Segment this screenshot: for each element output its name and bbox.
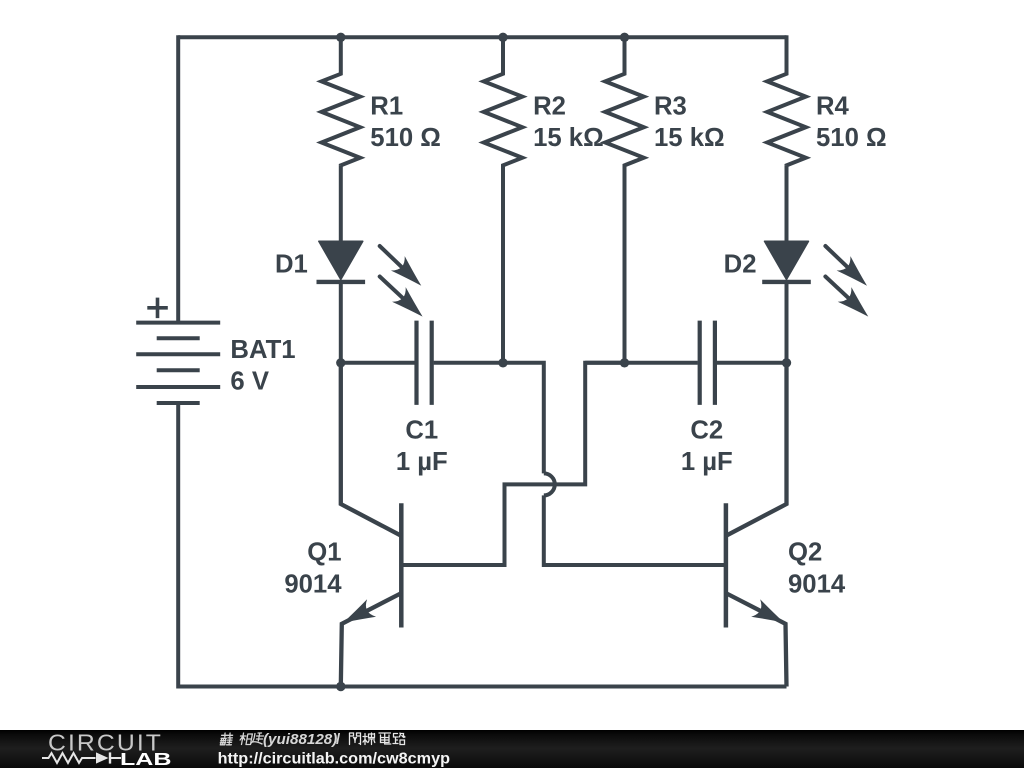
wire: left rail from top rail down to battery positive	[176, 35, 180, 322]
svg-text:C1: C1	[405, 417, 438, 445]
svg-text:9014: 9014	[788, 570, 846, 598]
transistor Q2 collector lead	[726, 363, 787, 536]
svg-text:R3: R3	[654, 92, 687, 120]
wire: left rail from battery negative down to bottom rail	[176, 403, 180, 689]
node junction dot: node A at R2 / C1	[498, 358, 507, 367]
footer title CJK glyph 爍 (drawn)	[363, 733, 375, 745]
battery BAT1 long positive plate 3	[136, 352, 220, 356]
node junction dot: top rail / R2	[498, 33, 507, 42]
svg-text:510 Ω: 510 Ω	[370, 124, 441, 152]
svg-text:LAB: LAB	[120, 748, 172, 768]
battery BAT1 short negative plate 6	[157, 401, 200, 405]
svg-text:C2: C2	[690, 417, 723, 445]
svg-text:D2: D2	[724, 251, 757, 279]
node junction dot: node A at D1 cathode / C1	[336, 358, 345, 367]
CircuitLab footer brand bar	[0, 730, 1024, 768]
LED D2 anode wire from resistor	[785, 165, 789, 243]
LED D1 triangle	[319, 241, 363, 279]
wire: node B horizontal from R3 bottom to C2 left plate	[585, 361, 698, 365]
transistor Q2 emitter lead with arrow	[726, 593, 787, 686]
LED D2 cathode bar	[762, 280, 811, 284]
resistor R1 510 ohm	[322, 37, 441, 165]
transistor Q1 emitter lead with arrow	[341, 593, 402, 686]
wire: node A horizontal from C1 right plate to R2 bottom	[434, 361, 503, 365]
transistor Q1 base bar	[399, 503, 404, 627]
wire: top supply rail	[178, 35, 786, 39]
svg-text:http://circuitlab.com/cw8cmyp: http://circuitlab.com/cw8cmyp	[218, 750, 450, 767]
svg-text:BAT1: BAT1	[230, 336, 295, 364]
LED D2 light emission arrow 1	[825, 246, 848, 268]
svg-text:15 kΩ: 15 kΩ	[533, 124, 604, 152]
svg-text:9014: 9014	[284, 570, 342, 598]
LED D1 cathode wire down to node	[339, 282, 343, 363]
svg-text:/: /	[336, 731, 341, 748]
logo resistor zigzag glyph	[42, 753, 96, 763]
LED D1 anode wire from resistor	[339, 165, 343, 243]
battery BAT1 plus sign	[147, 298, 168, 319]
node junction dot: node B at R3 / C2	[620, 358, 629, 367]
LED D1 cathode bar	[317, 280, 366, 284]
battery BAT1 long positive plate 5	[136, 385, 220, 389]
svg-text:R1: R1	[370, 92, 403, 120]
wire: cross-coupling from node A toward Q2 base (horizontal top)	[503, 363, 544, 474]
wire: node B horizontal from C2 right plate to D2 cathode	[717, 361, 787, 365]
svg-text:15 kΩ: 15 kΩ	[654, 124, 725, 152]
svg-text:R4: R4	[816, 92, 850, 120]
capacitor C1 left plate	[414, 321, 418, 405]
LED D2 cathode wire down to node	[785, 282, 789, 363]
LED D2 triangle	[765, 241, 809, 279]
wire: right rail top corner down to R4	[785, 35, 789, 74]
capacitor C2 1uF	[681, 321, 733, 477]
svg-text:R2: R2	[533, 92, 566, 120]
footer author name CJK glyph 柏 (drawn)	[239, 733, 253, 745]
LED D1	[275, 165, 429, 362]
battery BAT1	[136, 298, 295, 403]
LED D2 light emission arrow 2	[825, 277, 849, 299]
battery BAT1 short negative plate 2	[157, 336, 200, 340]
logo diode glyph	[96, 752, 109, 763]
footer title CJK glyph 路 (drawn)	[393, 733, 405, 745]
battery BAT1 long positive plate 1	[136, 321, 220, 325]
svg-text:6 V: 6 V	[230, 368, 269, 396]
node junction dot: top rail / R1	[336, 33, 345, 42]
resistor R2 15 kohm with wire down to node A	[484, 37, 604, 363]
LED D2	[724, 165, 875, 362]
resistor R3 15 kohm with wire down to node B	[605, 37, 724, 363]
svg-text:D1: D1	[275, 251, 308, 279]
footer title CJK glyph 電 (drawn)	[379, 733, 391, 744]
LED D1 light emission arrow 2	[380, 277, 404, 299]
capacitor C2 right plate	[713, 321, 717, 405]
wire: node A horizontal from D1 cathode to C1 left plate	[341, 361, 415, 365]
wire: bottom ground rail	[178, 685, 786, 689]
svg-text:510 Ω: 510 Ω	[816, 124, 887, 152]
capacitor C1 1uF	[396, 321, 448, 477]
battery BAT1 short negative plate 4	[157, 368, 200, 372]
capacitor C1 right plate	[430, 321, 434, 405]
transistor Q1 collector lead	[341, 363, 402, 536]
node junction dot: top rail / R3	[620, 33, 629, 42]
svg-text:1 µF: 1 µF	[396, 448, 448, 476]
wire: hop (bridge) over crossing wire	[544, 473, 555, 495]
svg-text:1 µF: 1 µF	[681, 448, 733, 476]
resistor R4 zigzag symbol	[767, 37, 806, 165]
transistor Q2 9014 NPN	[726, 363, 846, 687]
transistor Q2 base bar	[724, 503, 729, 627]
resistor R4 510 ohm	[767, 37, 886, 165]
wire: cross-coupling from node B down and left to Q1 base	[401, 363, 624, 565]
svg-text:Q2: Q2	[788, 539, 822, 567]
wire: cross-coupling continues down then right to Q2 base	[544, 495, 726, 565]
node junction dot: bottom rail / Q1 emitter	[336, 682, 345, 691]
svg-text:Q1: Q1	[307, 539, 341, 567]
capacitor C2 left plate	[698, 321, 702, 405]
footer title CJK glyph 閃 (drawn)	[350, 733, 361, 745]
resistor R3 zigzag symbol	[605, 37, 644, 363]
LED D1 light emission arrow 1	[380, 246, 403, 268]
transistor Q1 9014 NPN (mirrored)	[284, 363, 401, 687]
footer author name CJK glyph 廷 (drawn)	[251, 733, 264, 744]
node junction dot: node B at C2 / D2 cathode	[782, 358, 791, 367]
resistor R1 zigzag symbol	[322, 37, 361, 165]
svg-text:(yui88128): (yui88128)	[263, 731, 337, 748]
resistor R2 zigzag symbol	[484, 37, 523, 363]
footer author name CJK glyph 蘇 (drawn)	[220, 733, 233, 745]
